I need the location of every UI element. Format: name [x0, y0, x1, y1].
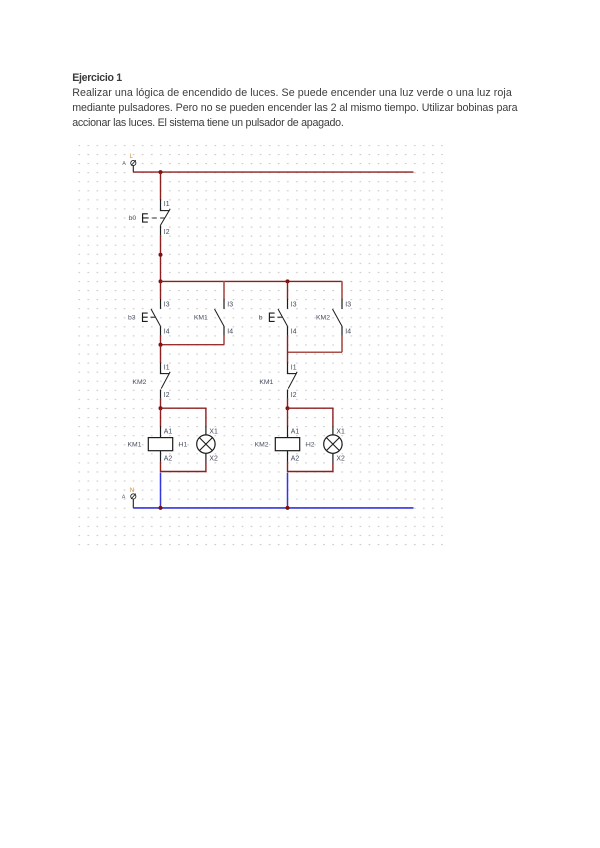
svg-text:X1: X1: [209, 429, 218, 436]
wire right trunk through return: [287, 336, 289, 363]
wire parallel return left: [161, 344, 225, 346]
pushbutton actuator b: [269, 313, 274, 321]
svg-text:KM1: KM1: [128, 442, 142, 449]
node lamp branch right: [286, 406, 290, 410]
svg-text:I4: I4: [345, 329, 351, 336]
actuator link b3 (dashed): [151, 316, 158, 318]
contact KM1 normally-open: [215, 299, 225, 336]
wire left trunk to KM2 NC: [160, 345, 162, 363]
wire coil KM1 top lead: [160, 408, 162, 426]
svg-text:N: N: [130, 488, 134, 494]
svg-text:b0: b0: [129, 215, 137, 222]
svg-text:I3: I3: [345, 301, 351, 308]
svg-text:X2: X2: [336, 455, 345, 462]
wire drop to KM2: [341, 281, 343, 299]
svg-text:I3: I3: [291, 301, 297, 308]
svg-text:I2: I2: [164, 229, 170, 236]
wire coil/lamp bottom loop: [288, 462, 333, 472]
svg-text:A2: A2: [164, 455, 173, 462]
svg-text:I3: I3: [164, 301, 170, 308]
svg-text:X2: X2: [209, 455, 218, 462]
wire L terminal stub: [132, 166, 134, 172]
svg-text:KM2: KM2: [255, 442, 269, 449]
svg-text:A: A: [122, 161, 126, 167]
wire KM2 contact bottom: [341, 336, 343, 353]
contact KM1 normally-closed: [287, 363, 297, 399]
wire KM1-NC to junction: [287, 399, 289, 409]
coil KM2: [275, 426, 299, 462]
svg-text:H2: H2: [306, 442, 315, 449]
svg-text:I4: I4: [291, 329, 297, 336]
wire bottom neutral rail (blue): [133, 507, 413, 509]
svg-text:A: A: [122, 495, 126, 501]
actuator link b0 (dashed): [144, 217, 166, 219]
wire trunk down to b0: [160, 172, 162, 200]
terminal N: [131, 494, 136, 499]
svg-text:I1: I1: [164, 365, 170, 372]
svg-text:I4: I4: [227, 329, 233, 336]
svg-text:KM2: KM2: [316, 315, 330, 322]
wire b0 to branch node: [160, 236, 162, 282]
svg-text:I4: I4: [164, 329, 170, 336]
wire lamp1 branch: [161, 408, 206, 426]
node neutral left: [159, 506, 163, 510]
wire top supply rail L1: [133, 171, 413, 173]
wire drop to b: [287, 281, 289, 299]
pushbutton actuator b3: [143, 313, 148, 321]
wire joint node: [159, 253, 163, 257]
svg-text:I3: I3: [227, 301, 233, 308]
node branch right: [286, 279, 290, 283]
pushbutton actuator b0: [143, 214, 148, 222]
wire neutral drop KM2 (blue): [287, 473, 289, 508]
svg-text:H1: H1: [179, 442, 188, 449]
coil KM1: [148, 426, 172, 462]
contact b3 normally-open: [151, 299, 161, 336]
contact b normally-open: [278, 299, 288, 336]
contact KM2 normally-open: [333, 299, 343, 336]
node return left: [159, 343, 163, 347]
svg-text:KM1: KM1: [194, 315, 208, 322]
wire coil/lamp bottom loop: [161, 462, 206, 472]
wire branch rail: [161, 280, 343, 282]
wire neutral drop KM1 (blue): [160, 473, 162, 508]
terminal L: [131, 160, 136, 165]
svg-text:KM1: KM1: [259, 379, 273, 386]
wire b3 bottom: [160, 336, 162, 345]
wire drop to b3: [160, 281, 162, 299]
svg-text:X1: X1: [336, 429, 345, 436]
svg-text:A1: A1: [164, 429, 173, 436]
svg-text:I1: I1: [291, 365, 297, 372]
contact KM2 normally-closed: [160, 363, 170, 399]
svg-text:KM2: KM2: [132, 379, 146, 386]
node neutral right: [286, 506, 290, 510]
svg-text:b: b: [259, 315, 263, 322]
wire N terminal stub: [132, 499, 134, 508]
junction node rail/trunk: [159, 170, 163, 174]
wire parallel return right: [288, 351, 343, 353]
svg-text:A2: A2: [291, 455, 300, 462]
svg-text:I2: I2: [164, 392, 170, 399]
node branch left: [159, 279, 163, 283]
svg-text:b3: b3: [128, 315, 136, 322]
wire KM1 contact bottom: [223, 336, 225, 345]
wire KM2-NC to junction: [160, 399, 162, 409]
wire lamp2 branch: [288, 408, 333, 426]
node lamp branch left: [159, 406, 163, 410]
actuator link b (dashed): [277, 316, 284, 318]
lamp H2: [324, 426, 342, 462]
lamp H1: [197, 426, 215, 462]
wire drop to KM1: [223, 281, 225, 299]
pushbutton b0 normally-closed contact: [160, 200, 170, 236]
svg-text:A1: A1: [291, 429, 300, 436]
svg-text:I1: I1: [164, 201, 170, 208]
svg-text:I2: I2: [291, 392, 297, 399]
wire coil KM2 top lead: [287, 408, 289, 426]
